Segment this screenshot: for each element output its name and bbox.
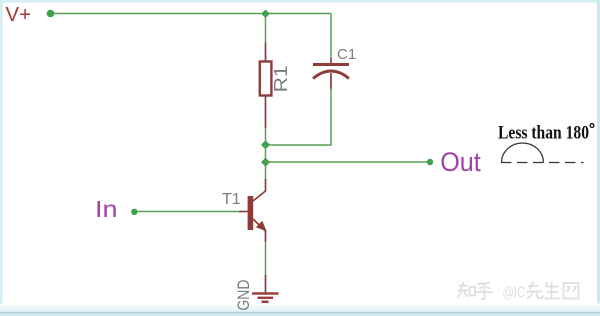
watermark sheng [545,282,561,299]
node V+ terminal [47,10,55,18]
transistor T1 emitter pin [253,219,266,232]
wire emitter net [265,242,267,275]
transistor T1 collector pin [253,179,266,201]
watermark zhihu zhi [458,282,476,298]
ground bar 2 [258,297,274,299]
annotation degree symbol [590,124,594,128]
wire between junctions [265,145,267,162]
node In terminal [131,209,137,215]
transistor T1 base pin [239,211,248,213]
svg-text:T1: T1 [222,191,241,208]
ground bar 3 [262,300,269,303]
svg-text:In: In [95,196,118,222]
svg-text:GND: GND [234,280,253,311]
svg-text:Out: Out [440,147,481,177]
frame right [597,0,600,316]
wire R1 branch lower [265,128,267,146]
svg-text:@IC: @IC [503,285,526,302]
watermark zhihu hu [476,283,493,299]
node junction R1/C1 [262,141,270,149]
ground bar 1 [252,292,279,295]
watermark xian [527,282,543,299]
wire C1 pin upper [330,58,332,64]
wire top rail [51,13,331,15]
svg-text:C1: C1 [337,46,356,63]
wire Out net [266,161,431,163]
node Out terminal [427,159,433,165]
wire R1 pin lower [265,95,267,128]
transistor T1 emitter arrow [256,221,267,232]
wire C1 branch upper [330,14,332,59]
watermark wang [564,283,579,299]
wire collector net [265,162,267,179]
svg-text:R1: R1 [271,65,291,92]
capacitor C1 top plate [313,63,349,66]
transistor T1 base bar [248,196,254,230]
svg-text:V+: V+ [6,4,32,26]
frame top [0,0,600,3]
wire R1 pin upper [265,43,267,63]
wire C1 branch lower [266,89,332,146]
resistor R1 [260,62,272,96]
transistor T1 emitter stub [265,231,267,242]
wire R1 branch upper [265,14,267,44]
wire base net [136,211,239,213]
capacitor C1 curved plate [313,71,349,79]
annotation semicircle arc [502,143,544,163]
wire C1 pin lower [330,73,332,89]
node junction collector/out [262,158,270,166]
frame left [0,0,3,316]
svg-text:Less than 180: Less than 180 [498,122,589,143]
ground pin stem [265,275,267,293]
annotation dashed baseline [501,162,584,164]
node junction top rail [262,10,269,17]
